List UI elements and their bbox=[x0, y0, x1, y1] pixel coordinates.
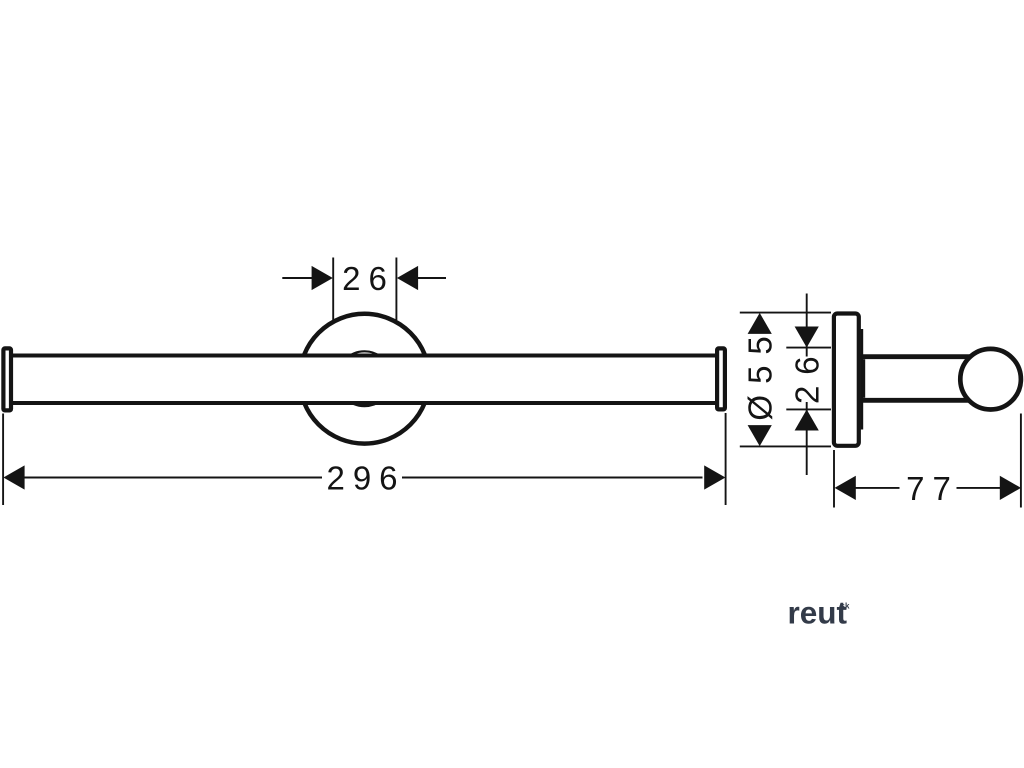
dim 77 left arrow bbox=[835, 476, 856, 500]
dim 77 left extension line bbox=[833, 450, 835, 508]
dim 26 side dim line stub upper bbox=[806, 348, 808, 357]
dim 26 side lower dim line bbox=[806, 410, 808, 476]
svg-text:sk: sk bbox=[841, 602, 850, 611]
wall plate circle (front view) bbox=[300, 314, 430, 444]
bar bottom edge line bbox=[13, 401, 716, 405]
dim 296 left extension line bbox=[2, 414, 4, 506]
dim Ø55 bottom extension line bbox=[740, 445, 831, 447]
plate inner ring edge (side view) bbox=[861, 329, 864, 430]
svg-text:296: 296 bbox=[326, 459, 405, 496]
dim 77 right extension line bbox=[1020, 414, 1022, 508]
bar top edge line bbox=[13, 354, 716, 358]
bar body white fill bbox=[12, 358, 716, 402]
dim 296 line left segment bbox=[23, 477, 322, 479]
dim 26 left arrow bbox=[312, 266, 333, 290]
dim 77 line right segment bbox=[957, 487, 1002, 489]
dim Ø55 top arrow bbox=[748, 313, 772, 334]
dim 296 right extension line bbox=[725, 413, 727, 505]
dim 26 left extension line bbox=[332, 258, 334, 321]
inner mounting post circle Ø26 (front view) bbox=[337, 351, 392, 406]
dim 26 side top extension line bbox=[786, 347, 831, 349]
dim 26 side top arrow bbox=[795, 327, 819, 348]
rod collar joint line bbox=[863, 359, 865, 398]
svg-text:26: 26 bbox=[342, 260, 395, 297]
svg-text:26: 26 bbox=[788, 345, 825, 404]
dim Ø55 top extension line bbox=[740, 312, 831, 314]
svg-text:77: 77 bbox=[906, 470, 959, 507]
dim 77 line left segment bbox=[855, 487, 900, 489]
dim 26 right extension line bbox=[395, 258, 397, 321]
ball end (side view) bbox=[960, 349, 1021, 410]
rod bottom edge (side view) bbox=[860, 398, 972, 403]
dim 296 left arrow bbox=[3, 465, 24, 489]
wall plate (side view) bbox=[834, 314, 859, 446]
dim 26 side upper dim line bbox=[806, 294, 808, 348]
right end cap bbox=[717, 348, 725, 409]
dim 26 right leader line bbox=[417, 277, 446, 279]
dim Ø55 bottom arrow bbox=[748, 425, 772, 446]
svg-text:Ø55: Ø55 bbox=[742, 325, 779, 420]
dim 26 left leader line bbox=[282, 277, 313, 279]
dim 77 right arrow bbox=[1000, 476, 1021, 500]
dim 296 right arrow bbox=[704, 465, 725, 489]
dim 26 side bottom arrow bbox=[795, 410, 819, 431]
dim 26 right arrow bbox=[397, 266, 418, 290]
dim 26 side bottom extension line bbox=[786, 408, 831, 410]
svg-text:reut: reut bbox=[788, 595, 848, 631]
left end cap bbox=[3, 348, 11, 410]
rod top edge (side view) bbox=[860, 354, 972, 359]
dim 26 side dim line stub lower bbox=[806, 402, 808, 410]
dim 296 line right segment bbox=[402, 477, 703, 479]
